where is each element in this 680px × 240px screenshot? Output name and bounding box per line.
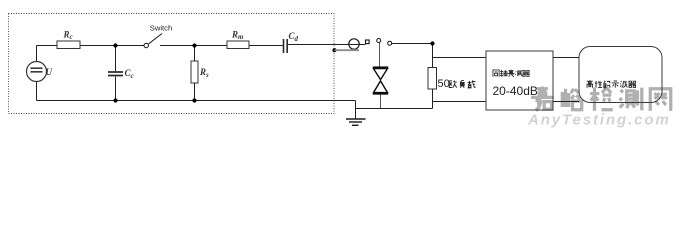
svg-text:20-40dB: 20-40dB: [493, 84, 538, 98]
svg-text:Cc: Cc: [125, 68, 134, 80]
svg-text:Cd: Cd: [289, 31, 299, 43]
svg-text:Rs: Rs: [199, 67, 209, 79]
svg-text:AnyTesting.com: AnyTesting.com: [527, 112, 671, 129]
svg-text:U: U: [46, 67, 53, 77]
svg-text:Switch: Switch: [150, 23, 172, 32]
svg-text:Rc: Rc: [63, 29, 73, 41]
svg-text:50: 50: [438, 78, 450, 90]
svg-text:Rm: Rm: [231, 29, 243, 41]
